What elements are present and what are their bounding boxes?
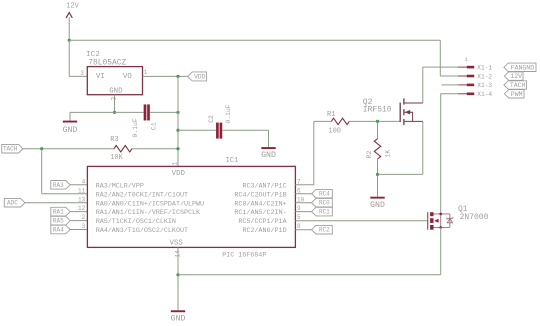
- wire C2 to ground corner: [222, 129, 268, 131]
- svg-text:RC2: RC2: [319, 227, 330, 234]
- wire IC2 VO to VDD node: [143, 75, 188, 77]
- Q1 bulk vertical: [440, 214, 442, 228]
- Q2 drain link: [405, 102, 423, 104]
- wire pin 6 stub: [295, 193, 311, 195]
- ground GND (R2): [370, 197, 384, 199]
- flag FANGND: [504, 63, 536, 71]
- svg-text:1K: 1K: [385, 150, 392, 158]
- svg-text:VI: VI: [96, 73, 105, 81]
- svg-text:3: 3: [82, 223, 86, 230]
- svg-text:13: 13: [78, 196, 86, 203]
- wire RA4 to pin 3: [70, 229, 87, 231]
- svg-text:X1-2: X1-2: [477, 73, 492, 80]
- wire 12V arrow to junction: [68, 17, 70, 40]
- svg-text:PIC 16F684P: PIC 16F684P: [222, 252, 266, 260]
- svg-text:FANGND: FANGND: [511, 64, 535, 71]
- svg-text:10K: 10K: [110, 154, 123, 162]
- Q2 bulk line: [405, 112, 413, 121]
- connector pin X1-2: [458, 75, 467, 77]
- wire RA1 to pin 12: [70, 211, 87, 213]
- wire down to GND symbol: [69, 112, 71, 120]
- wire ADC to IC1 pin 13: [25, 202, 88, 204]
- ground GND (C2): [261, 147, 275, 149]
- Q1 source link: [434, 226, 450, 228]
- svg-text:GND: GND: [370, 201, 385, 210]
- svg-text:RA1/AN1/C1IN-/VREF/ICSPCLK: RA1/AN1/C1IN-/VREF/ICSPCLK: [96, 209, 200, 217]
- capacitor C1: [144, 104, 147, 120]
- svg-text:RA2/AN2/T0CKI/INT/C1OUT: RA2/AN2/T0CKI/INT/C1OUT: [96, 191, 188, 199]
- wire 12V to X1-2 pin: [440, 75, 458, 77]
- Q2 bulk arrow: [405, 110, 410, 115]
- wire C2 ground drop: [268, 130, 270, 147]
- node 12V junction: [68, 39, 71, 42]
- svg-text:RC1: RC1: [319, 209, 330, 216]
- node C2 junction on VDD rail: [176, 129, 179, 132]
- node TACH junction: [40, 147, 43, 150]
- svg-text:GND: GND: [261, 151, 276, 160]
- svg-text:12V: 12V: [510, 73, 522, 80]
- transistor Q1 gate bar: [427, 212, 429, 230]
- flag TACH (connector): [504, 81, 527, 89]
- flag RA1: [51, 207, 70, 216]
- wire source to R2 junction: [378, 173, 423, 175]
- Q2 source link: [405, 120, 423, 122]
- svg-text:1: 1: [144, 69, 148, 76]
- wire Q2 drain up to FANGND: [422, 67, 424, 103]
- transistor Q1 channel blocks: [430, 212, 433, 216]
- svg-text:R1: R1: [327, 111, 335, 119]
- Q1 source dot: [439, 226, 442, 229]
- svg-text:RA4: RA4: [53, 226, 64, 233]
- svg-text:RA5/T1CKI/OSC1/CLKIN: RA5/T1CKI/OSC1/CLKIN: [96, 218, 176, 226]
- svg-text:78L05ACZ: 78L05ACZ: [88, 59, 126, 68]
- wire 12V top rail: [69, 39, 440, 41]
- flag RC0: [312, 198, 333, 207]
- wire Q2 source down: [422, 121, 424, 174]
- svg-text:RA4/AN3/T1G/OSC2/CLKOUT: RA4/AN3/T1G/OSC2/CLKOUT: [96, 227, 188, 235]
- wire FANGND to X1-1: [423, 66, 459, 68]
- wire pin 10 stub: [295, 202, 311, 204]
- flag RC1: [312, 207, 333, 216]
- svg-text:C2: C2: [208, 115, 215, 123]
- wire TACH to IC1 pin 11: [42, 193, 88, 195]
- svg-text:IC1: IC1: [226, 157, 238, 165]
- node R2 top junction: [376, 120, 379, 123]
- ground GND (VSS): [171, 310, 185, 312]
- svg-text:VO: VO: [123, 73, 132, 81]
- wire junction to C1: [115, 111, 144, 113]
- Q1 drain link: [434, 213, 450, 215]
- supply +12V arrow: [66, 13, 72, 18]
- svg-text:VDD: VDD: [194, 74, 206, 81]
- wire 12V junction down to IC2 VI: [68, 40, 70, 76]
- wire GND run left: [70, 111, 115, 113]
- svg-text:GND: GND: [171, 315, 186, 324]
- node VDD at IC2 output: [176, 75, 179, 78]
- wire VSS bottom rail: [178, 274, 441, 276]
- svg-text:IRF510: IRF510: [363, 106, 392, 115]
- connector pin X1-3: [458, 84, 467, 86]
- wire C1 to VDD rail: [150, 111, 178, 113]
- flag TACH (left): [2, 144, 23, 153]
- wire 12V rail down to X1-2: [439, 40, 441, 76]
- node VSS junction: [176, 273, 179, 276]
- svg-text:GND: GND: [109, 87, 123, 95]
- svg-text:GND: GND: [63, 126, 78, 135]
- svg-text:RC4/C2OUT/P1B: RC4/C2OUT/P1B: [234, 191, 286, 199]
- wire Q1 source down to rail: [440, 227, 442, 274]
- svg-text:RC2/AN6/P1D: RC2/AN6/P1D: [242, 227, 286, 235]
- svg-text:TACH: TACH: [510, 82, 526, 89]
- svg-text:VDD: VDD: [172, 170, 186, 178]
- svg-text:RA3: RA3: [53, 182, 64, 189]
- wire R3 to VDD rail: [132, 148, 178, 150]
- wire X1-4 to Q1 drain run: [441, 93, 459, 95]
- svg-text:RC1/AN5/C2IN-: RC1/AN5/C2IN-: [234, 209, 286, 217]
- resistor R2: [374, 139, 380, 159]
- wire TACH flag to R3: [23, 148, 114, 150]
- wire R2 bottom lead: [377, 159, 379, 197]
- ground GND (IC2): [63, 121, 77, 123]
- wire PWM drop to Q1 drain: [440, 94, 442, 214]
- svg-text:12: 12: [78, 205, 86, 212]
- wire R2 top lead: [377, 121, 379, 138]
- connector pin X1-4: [458, 93, 467, 95]
- wire X1-3 stub: [442, 84, 459, 86]
- svg-text:RC3/AN7/P1C: RC3/AN7/P1C: [242, 182, 286, 190]
- voltage regulator IC2 body: [87, 67, 142, 95]
- resistor R3: [114, 146, 132, 152]
- svg-text:R3: R3: [110, 136, 118, 144]
- svg-text:11: 11: [78, 187, 86, 194]
- svg-text:PWM: PWM: [511, 91, 523, 98]
- flag RC2: [312, 225, 333, 234]
- connector pin X1-1: [458, 66, 467, 68]
- wire pin 8 stub: [295, 229, 311, 231]
- flag RA3: [51, 181, 70, 190]
- flag RA5: [51, 216, 70, 225]
- flag 12V (connector): [504, 72, 523, 80]
- wire IC1 pin 5 to Q1 gate: [295, 220, 427, 222]
- svg-text:1: 1: [464, 56, 468, 63]
- svg-text:5: 5: [297, 214, 301, 221]
- wire RA5 to pin 2: [70, 220, 87, 222]
- svg-text:VSS: VSS: [170, 239, 184, 247]
- svg-text:2: 2: [82, 214, 86, 221]
- wire IC1 pin 7 out: [295, 184, 313, 186]
- svg-text:RA1: RA1: [53, 209, 64, 216]
- resistor R1: [331, 118, 349, 124]
- wire TACH down: [41, 149, 43, 194]
- node C1-VDD junction: [176, 111, 179, 114]
- flag ADC: [4, 198, 25, 207]
- microcontroller IC1 body: [87, 166, 295, 247]
- svg-text:1: 1: [172, 162, 179, 166]
- svg-text:RA0/AN0/C1IN+/ICSPDAT/ULPWU: RA0/AN0/C1IN+/ICSPDAT/ULPWU: [96, 200, 204, 208]
- wire pin 7 riser: [313, 121, 315, 184]
- flag RC4: [312, 189, 333, 198]
- svg-text:RA5: RA5: [53, 218, 64, 225]
- wire R1 to Q2 gate: [349, 120, 400, 122]
- Q1 drain dot: [439, 213, 442, 216]
- wire VDD vertical rail: [177, 76, 179, 166]
- svg-text:C1: C1: [150, 122, 157, 130]
- svg-text:RC5/CCP1/P1A: RC5/CCP1/P1A: [238, 218, 287, 226]
- svg-text:4: 4: [82, 178, 86, 185]
- svg-text:0.1uF: 0.1uF: [225, 104, 232, 123]
- svg-text:RA3/MCLR/VPP: RA3/MCLR/VPP: [96, 182, 144, 190]
- wire IC2 GND pin down: [114, 95, 116, 113]
- svg-text:IC2: IC2: [86, 51, 100, 59]
- svg-text:X1-1: X1-1: [477, 64, 492, 71]
- wire to IC2 pin 3: [69, 75, 87, 77]
- Q1 body diode branch: [449, 214, 451, 228]
- svg-text:RC0/AN4/C2IN+: RC0/AN4/C2IN+: [234, 200, 286, 208]
- flag PWM: [504, 90, 524, 98]
- capacitor C2: [216, 123, 219, 139]
- Q1 body diode: [447, 217, 453, 223]
- wire VDD rail to C2: [178, 129, 216, 131]
- svg-text:X1-4: X1-4: [477, 91, 492, 98]
- node R3-VDD junction: [176, 147, 179, 150]
- svg-text:0.1uF: 0.1uF: [132, 118, 139, 137]
- svg-text:RC0: RC0: [319, 200, 330, 207]
- svg-text:3: 3: [80, 70, 84, 77]
- svg-text:100: 100: [328, 128, 341, 136]
- svg-text:X1-3: X1-3: [477, 82, 492, 89]
- Q1 bulk arrow: [434, 219, 438, 223]
- svg-text:ADC: ADC: [7, 200, 18, 207]
- svg-text:8: 8: [297, 223, 301, 230]
- transistor Q2 channel: [403, 98, 405, 125]
- node R2-source junction: [376, 173, 379, 176]
- node IC2 GND junction: [113, 111, 116, 114]
- svg-text:RC4: RC4: [319, 191, 330, 198]
- svg-text:TACH: TACH: [3, 146, 18, 153]
- svg-text:12V: 12V: [66, 3, 79, 11]
- wire pin 9 stub: [295, 211, 311, 213]
- flag RA4: [51, 225, 70, 234]
- wire IC1 VSS down: [177, 247, 179, 310]
- svg-text:2: 2: [110, 97, 117, 101]
- transistor Q2 gate bar: [399, 103, 401, 122]
- flag VDD: [188, 72, 207, 81]
- svg-text:2N7000: 2N7000: [460, 213, 489, 222]
- svg-text:R2: R2: [366, 151, 373, 159]
- wire riser to R1: [314, 120, 332, 122]
- wire RA3 to pin 4: [70, 184, 87, 186]
